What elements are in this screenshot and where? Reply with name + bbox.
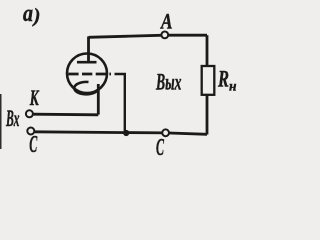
tube V1 grid (dashed) [68, 73, 111, 76]
scan edge artifact left [0, 94, 2, 149]
resistor Rn [202, 66, 215, 95]
tube V1 envelope [67, 54, 107, 94]
wire cathode to terminal K [33, 113, 99, 116]
svg-text:С: С [29, 132, 37, 157]
svg-text:Вх: Вх [5, 106, 19, 131]
svg-text:А: А [159, 8, 172, 33]
svg-text:Вых: Вых [155, 70, 181, 95]
terminal K [26, 110, 33, 117]
wire cathode lead down [97, 84, 100, 115]
tube V1 cathode [74, 82, 97, 94]
svg-text:С: С [156, 135, 164, 157]
svg-text:R: R [217, 67, 229, 92]
wire resistor bottom to rail [206, 95, 209, 135]
svg-text:а: а [23, 1, 33, 27]
tube V1 anode plate [77, 61, 97, 64]
svg-text:К: К [29, 85, 39, 110]
terminal C1 (input side) [27, 128, 34, 135]
terminal C2 (output side) [162, 129, 169, 136]
svg-text:): ) [32, 5, 41, 27]
terminal A [161, 32, 168, 39]
wire grid to bottom rail [115, 74, 125, 133]
tube V1 anode lead [87, 37, 90, 62]
wire bottom rail [34, 132, 207, 135]
svg-text:н: н [229, 80, 237, 95]
junction dot (grid to bottom rail) [123, 130, 129, 136]
wire right side down to resistor [206, 35, 209, 66]
paper background [0, 0, 240, 157]
wire anode top rail [89, 35, 208, 37]
